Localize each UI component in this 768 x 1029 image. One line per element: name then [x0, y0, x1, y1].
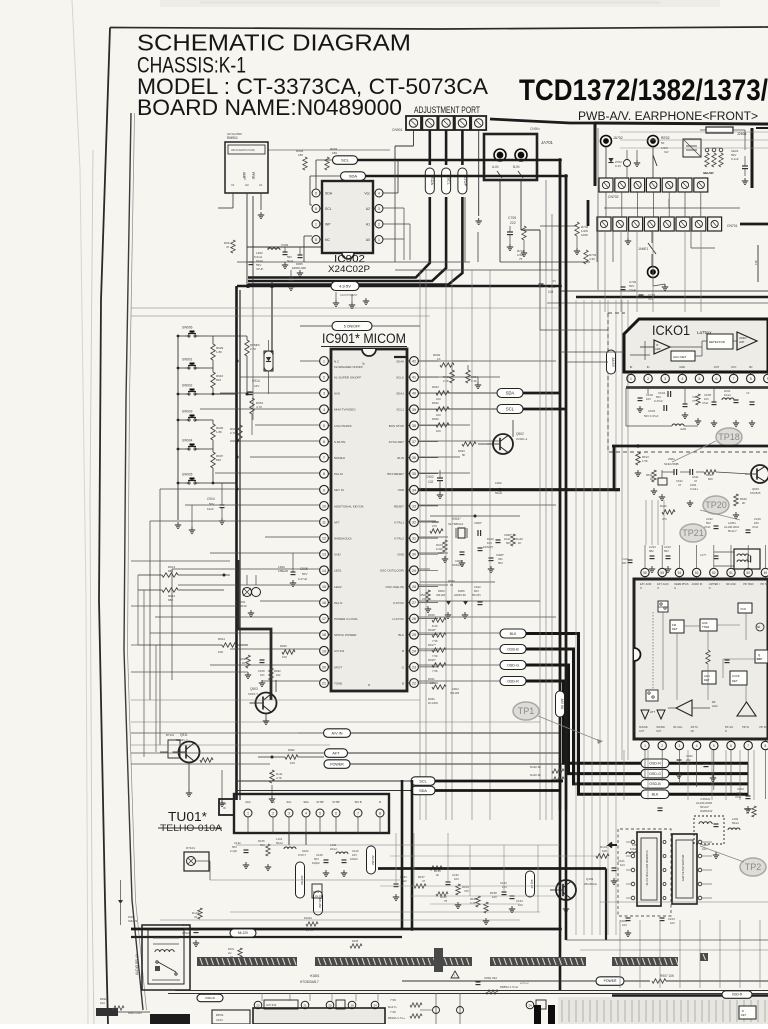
svg-text:1: 1 [323, 360, 325, 364]
svg-text:37: 37 [412, 440, 416, 444]
svg-text:100pF: 100pF [312, 861, 320, 865]
svg-text:BUS STOP: BUS STOP [389, 424, 404, 428]
svg-text:47uF: 47uF [735, 795, 742, 799]
svg-text:2: 2 [378, 222, 380, 226]
svg-text:820: 820 [708, 477, 713, 481]
svg-text:A/V IN1: A/V IN1 [334, 649, 345, 653]
svg-text:LOCK: LOCK [732, 674, 740, 678]
svg-text:W2051W: W2051W [700, 809, 713, 813]
svg-text:RF: RF [712, 700, 716, 704]
svg-text:50V: 50V [506, 541, 511, 545]
svg-text:SW902: SW902 [182, 384, 193, 388]
svg-text:R926: R926 [432, 417, 439, 421]
svg-text:Z601: Z601 [668, 457, 675, 461]
svg-text:GE1/2W: GE1/2W [703, 171, 714, 175]
svg-text:RE02: RE02 [661, 136, 670, 140]
svg-text:2: 2 [272, 812, 274, 816]
svg-text:AUDIO RELAY: AUDIO RELAY [135, 953, 139, 975]
svg-text:OSD-R: OSD-R [649, 762, 661, 766]
svg-text:47: 47 [422, 879, 426, 883]
svg-text:OSD-R: OSD-R [507, 679, 519, 683]
svg-text:47: 47 [678, 483, 682, 487]
svg-text:24: 24 [412, 649, 416, 653]
svg-text:SCL: SCL [506, 407, 515, 412]
svg-text:3: 3 [679, 744, 681, 748]
svg-text:5V BP: 5V BP [332, 800, 340, 804]
svg-text:5: 5 [319, 812, 321, 816]
svg-text:103: 103 [622, 923, 627, 927]
svg-text:6.2K: 6.2K [470, 901, 476, 905]
svg-text:30: 30 [412, 553, 416, 557]
svg-text:24: 24 [373, 1004, 377, 1008]
svg-text:35: 35 [412, 472, 416, 476]
svg-text:472: 472 [648, 297, 653, 301]
svg-text:2: 2 [323, 376, 325, 380]
svg-text:222: 222 [510, 221, 516, 225]
svg-text:1.8K: 1.8K [216, 350, 222, 354]
svg-text:R907 10K: R907 10K [660, 974, 675, 978]
svg-text:CN901: CN901 [392, 128, 403, 132]
svg-text:TONE: TONE [334, 681, 342, 685]
svg-text:50uH: 50uH [495, 491, 502, 495]
svg-text:CN702: CN702 [608, 195, 619, 199]
svg-text:7.5K: 7.5K [390, 998, 396, 1002]
svg-text:6: 6 [716, 377, 718, 381]
svg-text:R917*: R917* [428, 643, 437, 647]
svg-text:SIF TA: SIF TA [691, 726, 699, 729]
svg-text:X24C02P: X24C02P [328, 264, 370, 274]
svg-text:ADDITIONAL KEYCM: ADDITIONAL KEYCM [334, 504, 364, 508]
svg-text:22: 22 [412, 682, 416, 686]
svg-text:SCL: SCL [286, 800, 292, 804]
svg-text:OSD-R: OSD-R [205, 996, 216, 1000]
svg-text:Q903: Q903 [250, 687, 258, 691]
svg-text:16V: 16V [254, 384, 259, 388]
svg-text:40: 40 [412, 392, 416, 396]
svg-text:ICKO1: ICKO1 [652, 322, 690, 338]
svg-text:820: 820 [216, 458, 221, 462]
svg-text:JAME1: JAME1 [638, 247, 649, 251]
svg-text:X-TAL2: X-TAL2 [394, 537, 404, 541]
svg-text:PWB-A/V. EARPHONE<FRONT>: PWB-A/V. EARPHONE<FRONT> [578, 111, 758, 123]
svg-text:3.3uH: 3.3uH [690, 487, 697, 491]
svg-text:14: 14 [322, 569, 326, 573]
svg-text:Ru02: Ru02 [660, 504, 667, 508]
svg-text:103: 103 [670, 921, 675, 925]
svg-text:50uH: 50uH [276, 841, 283, 845]
svg-text:8: 8 [315, 238, 317, 242]
svg-text:POWER O-COOL: POWER O-COOL [334, 617, 358, 621]
svg-text:103: 103 [620, 863, 625, 867]
svg-text:3: 3 [323, 392, 325, 396]
svg-text:C914: C914 [252, 379, 260, 383]
svg-text:10uF: 10uF [207, 507, 214, 511]
svg-text:50V: 50V [209, 502, 214, 506]
svg-text:TP21: TP21 [682, 528, 704, 538]
svg-text:1: 1 [378, 238, 380, 242]
svg-text:180: 180 [332, 151, 337, 155]
svg-text:AFT: AFT [334, 520, 340, 524]
svg-text:47uF: 47uF [704, 525, 711, 529]
svg-text:PIF IN: PIF IN [759, 726, 766, 729]
svg-text:L902: L902 [495, 481, 502, 485]
svg-text:SCL: SCL [341, 157, 350, 162]
svg-text:RF-2M: RF-2M [318, 898, 322, 908]
svg-text:GP1U250K: GP1U250K [227, 132, 242, 136]
svg-text:B-IN: B-IN [513, 165, 520, 169]
svg-text:A2: A2 [366, 207, 370, 211]
svg-text:103: 103 [454, 877, 459, 881]
svg-text:10: 10 [322, 504, 326, 508]
svg-text:3: 3 [378, 207, 380, 211]
svg-text:R105: R105 [313, 890, 320, 894]
svg-text:Ja03: Ja03 [680, 427, 687, 431]
svg-text:16: 16 [322, 601, 326, 605]
svg-text:100K: 100K [581, 233, 588, 237]
svg-text:SW904: SW904 [182, 439, 193, 443]
svg-text:RESET: RESET [394, 504, 404, 508]
svg-text:49: 49 [764, 571, 768, 575]
svg-text:75: 75 [444, 899, 448, 903]
svg-text:X-TAL1: X-TAL1 [394, 520, 404, 524]
svg-text:Q902: Q902 [516, 432, 524, 436]
svg-text:5: 5 [698, 377, 700, 381]
svg-text:AUDIO IN: AUDIO IN [692, 583, 703, 586]
svg-text:R930: R930 [280, 644, 287, 648]
svg-text:C902: C902 [426, 475, 434, 479]
svg-text:2: 2 [661, 744, 663, 748]
svg-text:1: 1 [630, 377, 632, 381]
svg-text:31: 31 [412, 537, 416, 541]
svg-text:BLK: BLK [510, 632, 517, 636]
svg-text:24: 24 [528, 1004, 532, 1008]
svg-text:1: 1 [315, 222, 317, 226]
svg-text:0.47uF: 0.47uF [298, 577, 308, 581]
svg-text:50V: 50V [498, 561, 503, 565]
svg-text:SOUND: SOUND [656, 726, 665, 729]
svg-text:OUT: OUT [714, 365, 720, 369]
svg-text:10K: 10K [218, 650, 223, 654]
svg-text:4: 4 [305, 812, 307, 816]
svg-text:102: 102 [428, 480, 434, 484]
svg-text:5: 5 [315, 191, 317, 195]
svg-text:5: 5 [323, 424, 325, 428]
svg-text:8: 8 [750, 377, 752, 381]
svg-text:22uH: 22uH [330, 847, 337, 851]
svg-text:SCL1: SCL1 [396, 408, 404, 412]
svg-text:1.5K: 1.5K [642, 459, 648, 463]
svg-text:R922: R922 [432, 401, 439, 405]
svg-text:50/60Hz: 50/60Hz [334, 456, 346, 460]
svg-text:470: 470 [464, 889, 469, 893]
svg-text:IC901* MICOM: IC901* MICOM [322, 331, 406, 346]
svg-text:10A: 10A [100, 1001, 105, 1005]
svg-text:9V BP: 9V BP [316, 800, 324, 804]
svg-text:100V(P): 100V(P) [483, 545, 493, 549]
svg-text:WHD(HOLD): WHD(HOLD) [334, 537, 352, 541]
svg-text:BOARD NAME:N0489000: BOARD NAME:N0489000 [137, 95, 402, 120]
svg-text:7: 7 [733, 377, 735, 381]
svg-text:180: 180 [298, 153, 303, 157]
svg-text:SDA: SDA [506, 391, 515, 396]
svg-text:7.5K: 7.5K [432, 669, 438, 673]
svg-text:F/BEAD: F/BEAD [278, 569, 288, 573]
svg-text:52: 52 [712, 571, 716, 575]
svg-text:54: 54 [678, 571, 682, 575]
svg-text:DEEM PHAS: DEEM PHAS [674, 583, 688, 586]
svg-text:BT101: BT101 [166, 733, 175, 737]
svg-text:C904: C904 [207, 497, 215, 501]
svg-text:39: 39 [412, 408, 416, 412]
svg-text:DL701 MN3.4-4H5 M52D5CM: DL701 MN3.4-4H5 M52D5CM [645, 851, 649, 886]
svg-text:10K: 10K [436, 429, 441, 433]
svg-text:AMP: AMP [739, 341, 745, 344]
svg-text:H-SYNC: H-SYNC [392, 617, 404, 621]
svg-text:AA IN!: AA IN! [611, 358, 615, 367]
svg-text:10K: 10K [290, 761, 295, 765]
svg-text:SCL: SCL [325, 207, 332, 211]
svg-text:IR-IN: IR-IN [397, 456, 404, 460]
svg-text:RM901: RM901 [227, 136, 238, 140]
svg-text:EQ-10: EQ-10 [530, 880, 534, 889]
svg-text:51: 51 [729, 571, 733, 575]
svg-text:VCC: VCC [731, 365, 737, 369]
svg-text:21: 21 [303, 1004, 307, 1008]
svg-text:TP18: TP18 [718, 432, 740, 442]
svg-text:KSC815: KSC815 [750, 491, 761, 495]
svg-text:20: 20 [322, 665, 326, 669]
svg-text:4: 4 [696, 744, 698, 748]
svg-text:50: 50 [746, 571, 750, 575]
svg-text:SPOT: SPOT [334, 665, 342, 669]
svg-text:DET: DET [672, 627, 678, 631]
svg-text:NC: NC [271, 800, 275, 804]
svg-text:5.6uH: 5.6uH [254, 255, 262, 259]
svg-text:15: 15 [322, 585, 326, 589]
svg-text:C914: C914 [216, 1018, 223, 1022]
svg-text:0.1uF: 0.1uF [731, 157, 739, 161]
svg-text:CK03: CK03 [648, 409, 655, 413]
svg-text:OSD-G: OSD-G [507, 663, 519, 667]
svg-text:12: 12 [322, 537, 326, 541]
svg-text:104: 104 [548, 290, 554, 294]
svg-text:MHH TV/VIDEO: MHH TV/VIDEO [334, 408, 356, 412]
svg-text:A1: A1 [366, 223, 370, 227]
svg-text:47: 47 [226, 245, 230, 249]
svg-text:33V B: 33V B [354, 800, 361, 804]
svg-text:680: 680 [168, 569, 173, 573]
svg-text:4.7K: 4.7K [276, 776, 282, 780]
svg-text:R923: R923 [432, 385, 439, 389]
svg-text:VDD: VDD [398, 488, 405, 492]
svg-text:8: 8 [379, 812, 381, 816]
svg-text:AMP: AMP [242, 172, 246, 180]
svg-text:TCD1372/1382/1373/: TCD1372/1382/1373/ [519, 74, 768, 107]
svg-text:LIMITER I: LIMITER I [709, 583, 720, 586]
svg-text:C1: C1 [259, 183, 263, 187]
svg-text:PAL M: PAL M [334, 472, 343, 476]
svg-text:R885H 4.7mH: R885H 4.7mH [500, 985, 518, 989]
svg-text:AMP: AMP [655, 347, 661, 351]
svg-text:Q151: Q151 [586, 877, 594, 881]
svg-text:BST-RESET: BST-RESET [387, 472, 404, 476]
svg-text:13: 13 [322, 553, 326, 557]
svg-text:1K: 1K [650, 477, 654, 481]
svg-text:SCL: SCL [446, 177, 450, 184]
svg-text:O: O [657, 587, 659, 590]
svg-text:4: 4 [323, 408, 325, 412]
svg-text:90: 90 [757, 625, 761, 629]
svg-text:DETECTOR: DETECTOR [709, 340, 725, 344]
svg-text:SDA: SDA [325, 192, 333, 196]
svg-text:TP1: TP1 [518, 706, 535, 716]
svg-text:VCO: VCO [740, 607, 747, 611]
svg-text:STOP: STOP [463, 176, 467, 187]
svg-text:IN: IN [223, 806, 226, 810]
svg-text:SW906: SW906 [182, 326, 193, 330]
svg-text:AVO: AVO [334, 392, 341, 396]
svg-text:0.47uF: 0.47uF [684, 762, 693, 766]
svg-text:56: 56 [643, 571, 647, 575]
svg-text:A/V IN!: A/V IN! [560, 699, 564, 710]
svg-text:C905: C905 [300, 567, 308, 571]
svg-text:DC12V-5VDC: DC12V-5VDC [140, 959, 144, 978]
svg-text:ANT: ANT [221, 802, 227, 806]
svg-text:28: 28 [412, 585, 416, 589]
svg-text:*: * [368, 684, 370, 690]
svg-text:4: 4 [681, 377, 683, 381]
svg-text:7: 7 [747, 744, 749, 748]
svg-text:JA702: JA702 [613, 136, 623, 140]
svg-text:B: B [402, 681, 404, 685]
svg-text:7: 7 [323, 456, 325, 460]
svg-text:9.1V: 9.1V [615, 164, 621, 168]
svg-text:1K: 1K [242, 661, 246, 665]
svg-text:SW903: SW903 [182, 410, 193, 414]
svg-text:SW: SW [664, 150, 669, 154]
svg-text:50V: 50V [302, 572, 307, 576]
svg-text:N: N [709, 587, 711, 590]
svg-text:OSD-G: OSD-G [649, 772, 661, 776]
svg-text:6: 6 [315, 207, 317, 211]
svg-text:1K: 1K [437, 357, 441, 361]
svg-text:2w: 2w [228, 951, 231, 955]
svg-text:SIF GND: SIF GND [726, 583, 736, 586]
svg-text:2K: 2K [742, 501, 746, 505]
svg-text:IN: IN [647, 365, 650, 369]
svg-text:D: D [725, 730, 727, 733]
svg-text:AN-2M: AN-2M [371, 855, 375, 865]
svg-text:680: 680 [168, 598, 173, 602]
svg-text:DET: DET [741, 1013, 747, 1017]
svg-text:1K1/4W: 1K1/4W [428, 701, 438, 705]
svg-text:C903: C903 [281, 243, 289, 247]
svg-text:R952: R952 [288, 748, 295, 752]
svg-text:100uF: 100uF [350, 857, 358, 861]
svg-text:9.5V-?: 9.5V-? [298, 853, 307, 857]
svg-text:7.5K: 7.5K [390, 1010, 396, 1014]
svg-text:IN: IN [630, 365, 633, 369]
svg-text:0.47uF: 0.47uF [654, 399, 663, 403]
svg-text:55: 55 [660, 571, 664, 575]
svg-text:PRE: PRE [251, 172, 255, 180]
svg-text:MI-12V: MI-12V [238, 931, 249, 935]
svg-text:DP01: DP01 [216, 1013, 224, 1017]
svg-text:!: ! [454, 974, 455, 978]
svg-text:4.3K: 4.3K [589, 257, 595, 261]
svg-text:103: 103 [502, 885, 507, 889]
svg-text:2w 33: 2w 33 [306, 928, 313, 932]
svg-text:2.2pF: 2.2pF [230, 849, 237, 853]
svg-text:ATT: ATT [650, 710, 655, 714]
svg-text:38: 38 [412, 424, 416, 428]
svg-text:Ru29 3K: Ru29 3K [530, 773, 541, 777]
svg-text:AGC: AGC [712, 704, 718, 708]
svg-text:103: 103 [646, 397, 651, 401]
svg-text:SCL: SCL [419, 779, 426, 783]
svg-text:DET: DET [732, 679, 738, 683]
svg-text:R911: R911 [218, 637, 225, 641]
svg-text:AGC: AGC [245, 800, 251, 804]
svg-text:R102A: R102A [304, 916, 312, 920]
svg-text:GND: GND [334, 553, 342, 557]
svg-text:CK: CK [746, 391, 750, 395]
svg-text:15K: 15K [422, 597, 427, 601]
svg-text:C2021-1: C2021-1 [516, 437, 528, 441]
svg-text:10M: 10M [438, 551, 444, 555]
svg-text:19: 19 [350, 1004, 354, 1008]
svg-text:20: 20 [328, 1004, 332, 1008]
svg-text:SDA1: SDA1 [396, 392, 404, 396]
svg-text:OSC-OUT(LOOP): OSC-OUT(LOOP) [380, 569, 404, 573]
svg-text:R916*: R916* [428, 658, 437, 662]
svg-text:SDA0: SDA0 [396, 359, 404, 363]
svg-text:1.8K: 1.8K [216, 430, 222, 434]
svg-text:33: 33 [412, 504, 416, 508]
svg-text:Ru17+: Ru17+ [388, 1005, 397, 1009]
svg-text:GND: GND [679, 365, 685, 369]
svg-text:34: 34 [412, 488, 416, 492]
svg-text:SYNC-DET: SYNC-DET [389, 440, 405, 444]
svg-text:C705: C705 [508, 216, 516, 220]
svg-text:IN4003: IN4003 [128, 919, 137, 923]
svg-text:33: 33 [194, 915, 198, 919]
svg-text:50V 0.47uF: 50V 0.47uF [644, 414, 659, 418]
svg-text:VIDEO: VIDEO [739, 337, 747, 340]
svg-text:10K: 10K [282, 655, 287, 659]
svg-text:10uH: 10uH [724, 393, 731, 397]
svg-text:R918*: R918* [428, 628, 437, 632]
svg-text:R816A 4.7m+: R816A 4.7m+ [388, 1016, 405, 1020]
svg-text:C864 332: C864 332 [484, 976, 497, 980]
svg-text:LED2: LED2 [334, 585, 342, 589]
svg-text:NK: NK [691, 730, 695, 733]
svg-text:103: 103 [518, 903, 523, 907]
svg-text:220uF: 220uF [182, 931, 190, 935]
svg-text:470: 470 [662, 517, 667, 521]
svg-text:50V: 50V [664, 549, 669, 553]
svg-text:5 ON/OFF: 5 ON/OFF [344, 324, 361, 328]
svg-text:26: 26 [412, 617, 416, 621]
svg-text:50V(P): 50V(P) [472, 593, 481, 597]
svg-text:2.7K: 2.7K [250, 347, 256, 351]
svg-text:A/V IN1: A/V IN1 [266, 1003, 277, 1007]
svg-text:23: 23 [412, 665, 416, 669]
svg-text:SCLK: SCLK [396, 376, 404, 380]
svg-text:7: 7 [357, 812, 359, 816]
svg-text:SDA: SDA [349, 173, 358, 178]
svg-text:a.7m+x: a.7m+x [520, 981, 529, 985]
